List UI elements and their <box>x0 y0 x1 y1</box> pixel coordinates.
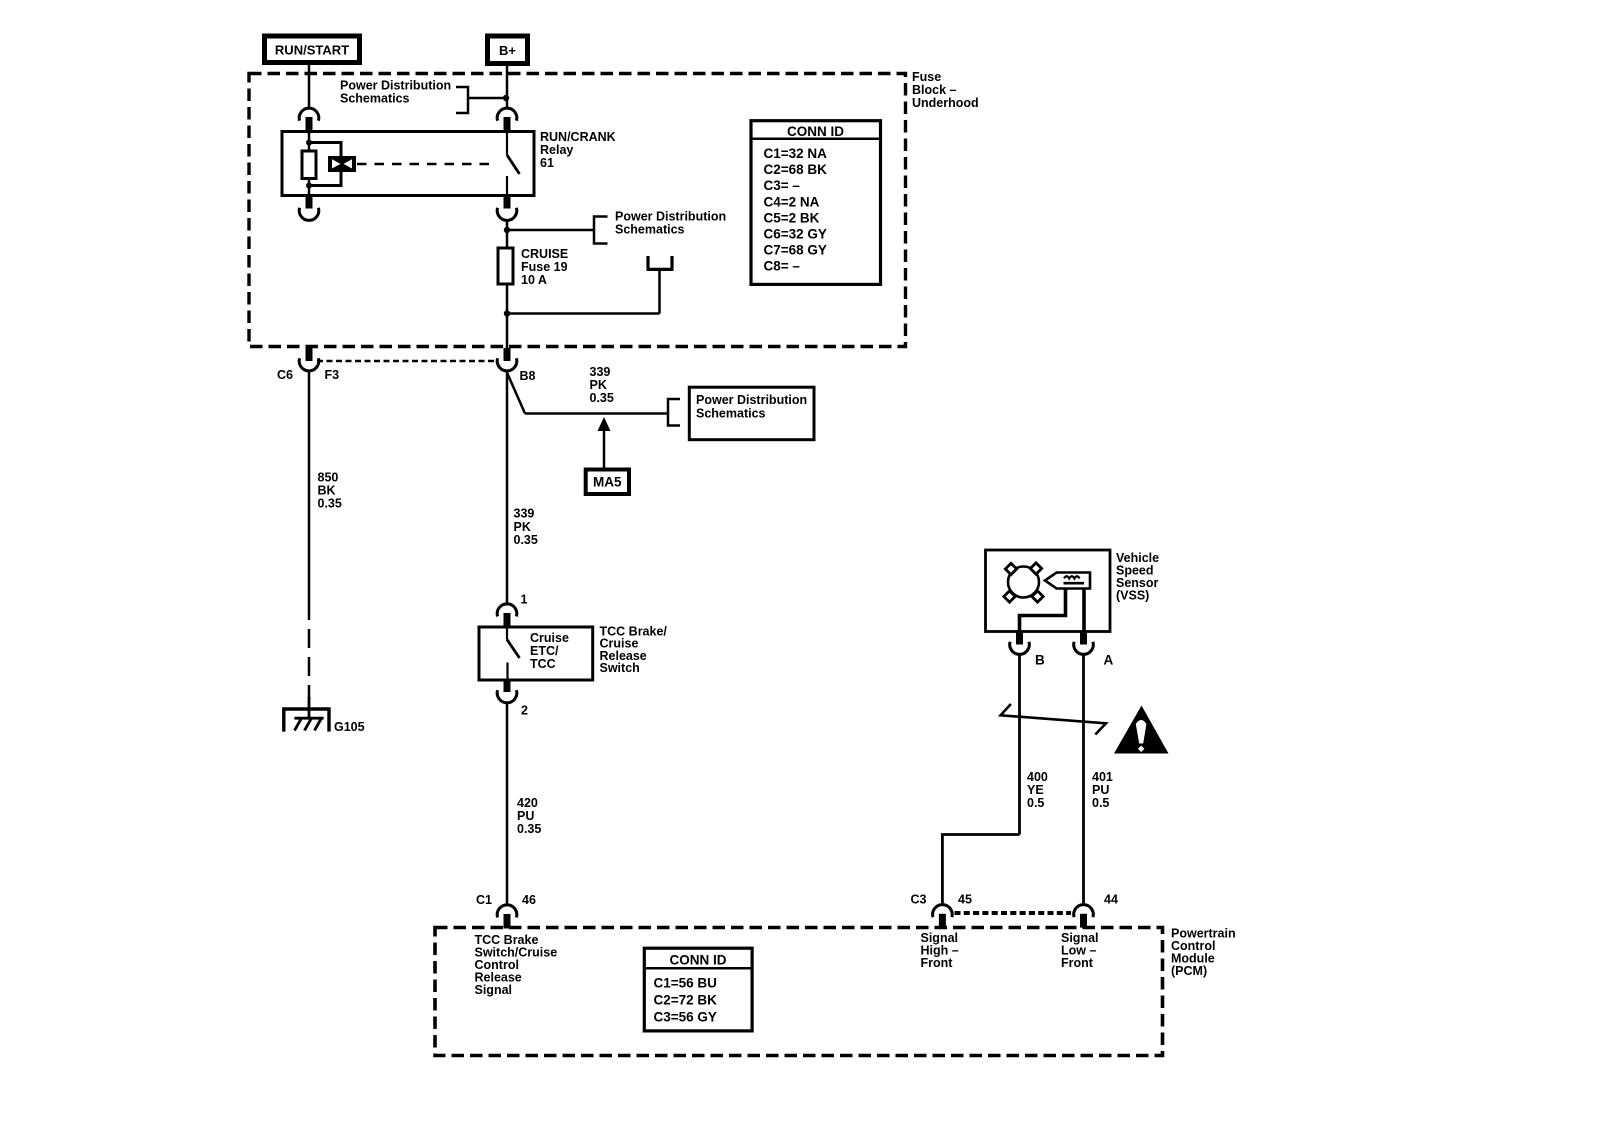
svg-text:F3: F3 <box>325 368 340 382</box>
connector cup A <box>1074 642 1094 655</box>
label Signal Low - Front <box>1061 931 1099 970</box>
pcm pin stub 46 <box>504 914 511 929</box>
svg-text:C1: C1 <box>476 893 492 907</box>
connector cup B <box>1010 642 1030 655</box>
svg-text:0.5: 0.5 <box>1027 796 1044 810</box>
wire branch to splice symbol <box>507 312 660 315</box>
svg-text:10 A: 10 A <box>521 273 547 287</box>
svg-text:C6: C6 <box>277 368 293 382</box>
label TCC Brake Switch/Cruise Control Release Signal <box>475 933 558 997</box>
vss reluctor wheel <box>1004 563 1043 602</box>
pcm pin stub 44 <box>1080 914 1087 928</box>
svg-text:TCC: TCC <box>530 657 556 671</box>
label Cruise ETC/ TCC <box>530 631 569 671</box>
fuse block underhood dashed boundary <box>249 74 906 347</box>
relay pin stub bottom right <box>504 196 511 209</box>
svg-text:Block –: Block – <box>912 83 957 97</box>
svg-text:PK: PK <box>590 378 607 392</box>
svg-text:B: B <box>1035 653 1045 668</box>
label Fuse Block - Underhood <box>912 70 979 110</box>
svg-text:2: 2 <box>521 704 528 718</box>
svg-text:C3=56 GY: C3=56 GY <box>654 1010 717 1025</box>
label 850 BK 0.35 <box>318 471 342 511</box>
terminal RUN/START <box>265 36 360 63</box>
pcm pin stub 45 <box>939 914 946 928</box>
label Powertrain Control Module (PCM) <box>1171 927 1236 979</box>
label 420 PU 0.35 <box>517 796 541 836</box>
svg-text:46: 46 <box>522 893 536 907</box>
svg-text:45: 45 <box>958 893 972 907</box>
svg-text:YE: YE <box>1027 783 1044 797</box>
wire 420 PU <box>506 703 509 905</box>
svg-text:401: 401 <box>1092 770 1113 784</box>
dotted connector line 45-44 <box>955 911 1072 915</box>
switch contact blade <box>507 627 520 680</box>
svg-text:C2=72 BK: C2=72 BK <box>654 993 718 1008</box>
svg-text:PU: PU <box>1092 783 1109 797</box>
pcm dashed boundary <box>435 928 1163 1056</box>
svg-text:B+: B+ <box>499 43 516 58</box>
relay switch contact <box>507 132 520 196</box>
vss pin stub B <box>1016 632 1023 645</box>
svg-text:Front: Front <box>1061 956 1094 970</box>
svg-text:ETC/: ETC/ <box>530 644 559 658</box>
svg-text:C5=2 BK: C5=2 BK <box>764 210 820 225</box>
svg-text:CONN ID: CONN ID <box>670 953 727 968</box>
svg-text:0.35: 0.35 <box>514 533 538 547</box>
label Power Distribution Schematics (mid) <box>615 210 726 237</box>
relay U61 box <box>282 132 534 196</box>
svg-text:MA5: MA5 <box>593 475 622 490</box>
node bottom of coil <box>306 183 312 189</box>
wire inside vss to pin B <box>1020 589 1066 632</box>
svg-text:Power Distribution: Power Distribution <box>615 210 726 224</box>
vehicle speed sensor box <box>986 550 1111 632</box>
dotted connector line C6-B8 <box>317 360 498 363</box>
relay coil resistor <box>302 151 316 179</box>
svg-text:C6=32 GY: C6=32 GY <box>764 227 827 242</box>
connector cap 44 <box>1074 905 1094 918</box>
MA5 box <box>586 470 629 495</box>
svg-text:0.35: 0.35 <box>590 391 614 405</box>
wire coil loop <box>309 143 341 186</box>
twisted pair symbol <box>1001 704 1106 735</box>
conn id table 2 <box>644 948 752 1031</box>
label CRUISE Fuse 19 10 A <box>521 247 568 287</box>
label Signal High - Front <box>921 931 959 970</box>
fuse CRUISE Fuse 19 <box>498 248 513 284</box>
label Vehicle Speed Sensor (VSS) <box>1116 551 1159 603</box>
connector cup at switch pin 2 <box>497 690 517 703</box>
terminal B+ <box>488 36 528 64</box>
svg-text:C3= –: C3= – <box>764 178 801 193</box>
svg-text:Schematics: Schematics <box>340 92 410 106</box>
svg-text:A: A <box>1104 653 1114 668</box>
pin stub at B8 <box>504 348 511 361</box>
wire inside vss to pin A <box>1082 589 1086 632</box>
svg-text:61: 61 <box>540 156 554 170</box>
splice pack symbol <box>647 256 674 314</box>
svg-text:PK: PK <box>514 520 531 534</box>
label 400 YE 0.5 <box>1027 770 1048 810</box>
svg-text:RUN/START: RUN/START <box>275 43 349 58</box>
relay pin stub right <box>504 117 511 132</box>
label TCC Brake/ Cruise Release Switch <box>600 625 668 676</box>
connector cup C6 <box>299 358 319 371</box>
conn id table 1 <box>751 121 881 285</box>
label 339 PK 0.35 (upper) <box>590 365 614 405</box>
wire branch to B+ wire <box>468 97 507 100</box>
svg-text:400: 400 <box>1027 770 1048 784</box>
connector cup below relay right <box>497 208 517 221</box>
wire 400 YE jog <box>942 835 1019 905</box>
wire branch to PD bracket mid <box>507 229 594 232</box>
svg-text:0.35: 0.35 <box>318 497 342 511</box>
svg-text:PU: PU <box>517 809 534 823</box>
pin stub at C6 <box>306 348 313 361</box>
svg-text:(PCM): (PCM) <box>1171 964 1207 978</box>
svg-text:C4=2 NA: C4=2 NA <box>764 194 820 209</box>
wire 401 PU vertical <box>1082 654 1085 904</box>
svg-text:0.5: 0.5 <box>1092 796 1109 810</box>
wire 850 BK dashed continuation <box>308 601 311 700</box>
svg-text:Signal: Signal <box>475 983 513 997</box>
junction dot above fuse <box>504 227 510 233</box>
vss pickup coil arrow <box>1045 573 1090 589</box>
connector cap 45 <box>933 905 953 918</box>
svg-text:Switch: Switch <box>600 661 640 675</box>
svg-text:C3: C3 <box>911 893 927 907</box>
wire relay to fuse <box>506 221 509 249</box>
junction dot below fuse <box>504 310 510 316</box>
label 401 PU 0.5 <box>1092 770 1113 810</box>
svg-text:Cruise: Cruise <box>530 631 569 645</box>
svg-text:339: 339 <box>590 365 611 379</box>
svg-text:Fuse 19: Fuse 19 <box>521 260 568 274</box>
wire 339 PK main <box>506 371 509 605</box>
wire into ground <box>308 697 311 718</box>
svg-text:Fuse: Fuse <box>912 70 941 84</box>
bracket for Power Distribution (top) <box>456 87 468 113</box>
switch pin stub top <box>504 613 511 627</box>
svg-text:B8: B8 <box>520 369 536 383</box>
connector cap 46 <box>497 905 517 918</box>
svg-text:Power Distribution: Power Distribution <box>696 393 807 407</box>
svg-text:Power Distribution: Power Distribution <box>340 79 451 93</box>
cruise switch box <box>479 627 593 680</box>
svg-text:C1=32 NA: C1=32 NA <box>764 146 828 161</box>
connector cap at switch pin 1 <box>497 604 517 617</box>
svg-text:339: 339 <box>514 507 535 521</box>
svg-text:G105: G105 <box>334 720 365 734</box>
svg-text:850: 850 <box>318 471 339 485</box>
svg-text:Schematics: Schematics <box>696 407 766 421</box>
bracket for Power Distribution (mid) <box>594 217 608 244</box>
svg-text:420: 420 <box>517 796 538 810</box>
svg-text:Relay: Relay <box>540 143 573 157</box>
svg-text:1: 1 <box>521 593 528 607</box>
connector cap at relay pin 1 <box>299 108 319 121</box>
label Power Distribution Schematics (top) <box>340 79 451 106</box>
node top of coil <box>306 140 312 146</box>
wire RUN/START to relay <box>308 65 311 109</box>
wire 400 YE vertical <box>1018 654 1021 834</box>
relay pin stub bottom left <box>306 196 313 209</box>
wire branch to PD bracket lower <box>525 412 668 415</box>
svg-text:BK: BK <box>318 484 336 498</box>
vss pin stub A <box>1080 632 1087 645</box>
svg-text:(VSS): (VSS) <box>1116 589 1149 603</box>
label 339 PK 0.35 (lower) <box>514 507 538 548</box>
svg-text:C8= –: C8= – <box>764 259 801 274</box>
svg-text:RUN/CRANK: RUN/CRANK <box>540 130 616 144</box>
connector cup B8 <box>497 358 517 371</box>
connector cup below relay left <box>299 208 319 221</box>
svg-text:44: 44 <box>1104 893 1118 907</box>
wire fuse to block exit <box>506 284 509 349</box>
bracket for Power Distribution (lower) <box>668 399 680 426</box>
svg-text:Underhood: Underhood <box>912 96 979 110</box>
boxed label Power Distribution Schematics <box>689 387 814 440</box>
label RUN/CRANK Relay 61 <box>540 130 616 170</box>
switch pin stub bottom <box>504 680 511 692</box>
svg-text:Front: Front <box>921 956 954 970</box>
svg-text:0.35: 0.35 <box>517 822 541 836</box>
svg-text:CRUISE: CRUISE <box>521 247 568 261</box>
svg-text:C1=56 BU: C1=56 BU <box>654 976 717 991</box>
relay coil solenoid box <box>328 156 356 172</box>
svg-text:Schematics: Schematics <box>615 223 685 237</box>
wire diagonal branch from B8 <box>507 372 526 414</box>
dashed actuation line <box>357 163 495 166</box>
ground G105 <box>284 709 329 732</box>
svg-text:C2=68 BK: C2=68 BK <box>764 162 828 177</box>
wire inside relay left <box>308 132 311 196</box>
wire B+ to relay <box>506 66 509 109</box>
wire 850 BK solid <box>308 371 311 601</box>
junction dot on B+ wire <box>503 95 509 101</box>
relay pin stub left <box>306 117 313 132</box>
arrow to MA5 <box>598 417 611 469</box>
warning triangle <box>1114 706 1169 754</box>
svg-text:C7=68 GY: C7=68 GY <box>764 243 827 258</box>
svg-text:CONN ID: CONN ID <box>787 124 844 139</box>
connector cap at relay pin 2 <box>497 108 517 121</box>
